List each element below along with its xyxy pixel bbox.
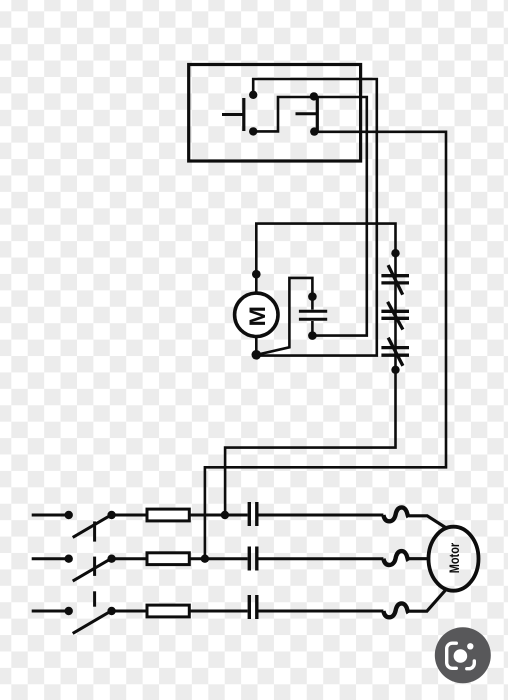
svg-text:Motor: Motor <box>447 542 462 573</box>
svg-text:M: M <box>245 306 270 327</box>
